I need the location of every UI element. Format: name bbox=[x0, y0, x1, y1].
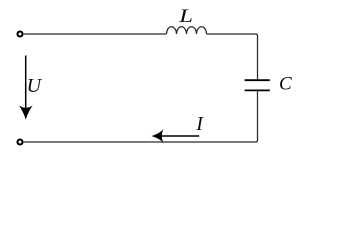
svg-text:I: I bbox=[195, 113, 204, 135]
wire top-right with corner bbox=[207, 34, 258, 79]
svg-text:U: U bbox=[27, 75, 43, 97]
capacitor C top plate bbox=[245, 79, 270, 81]
arrow U head bbox=[19, 105, 33, 120]
wire top (terminal to inductor) bbox=[24, 33, 167, 35]
arrow I shaft bbox=[162, 135, 200, 137]
wire bottom bbox=[24, 141, 256, 143]
arrow U shaft bbox=[25, 56, 27, 110]
terminal bottom-left bbox=[18, 140, 23, 145]
arrow I head bbox=[151, 129, 164, 144]
svg-text:L: L bbox=[178, 5, 193, 27]
wire right (capacitor to bottom corner) bbox=[256, 91, 258, 142]
capacitor C bottom plate bbox=[245, 89, 270, 91]
inductor L bbox=[167, 27, 207, 34]
terminal top-left bbox=[18, 32, 23, 37]
svg-text:C: C bbox=[279, 74, 292, 95]
